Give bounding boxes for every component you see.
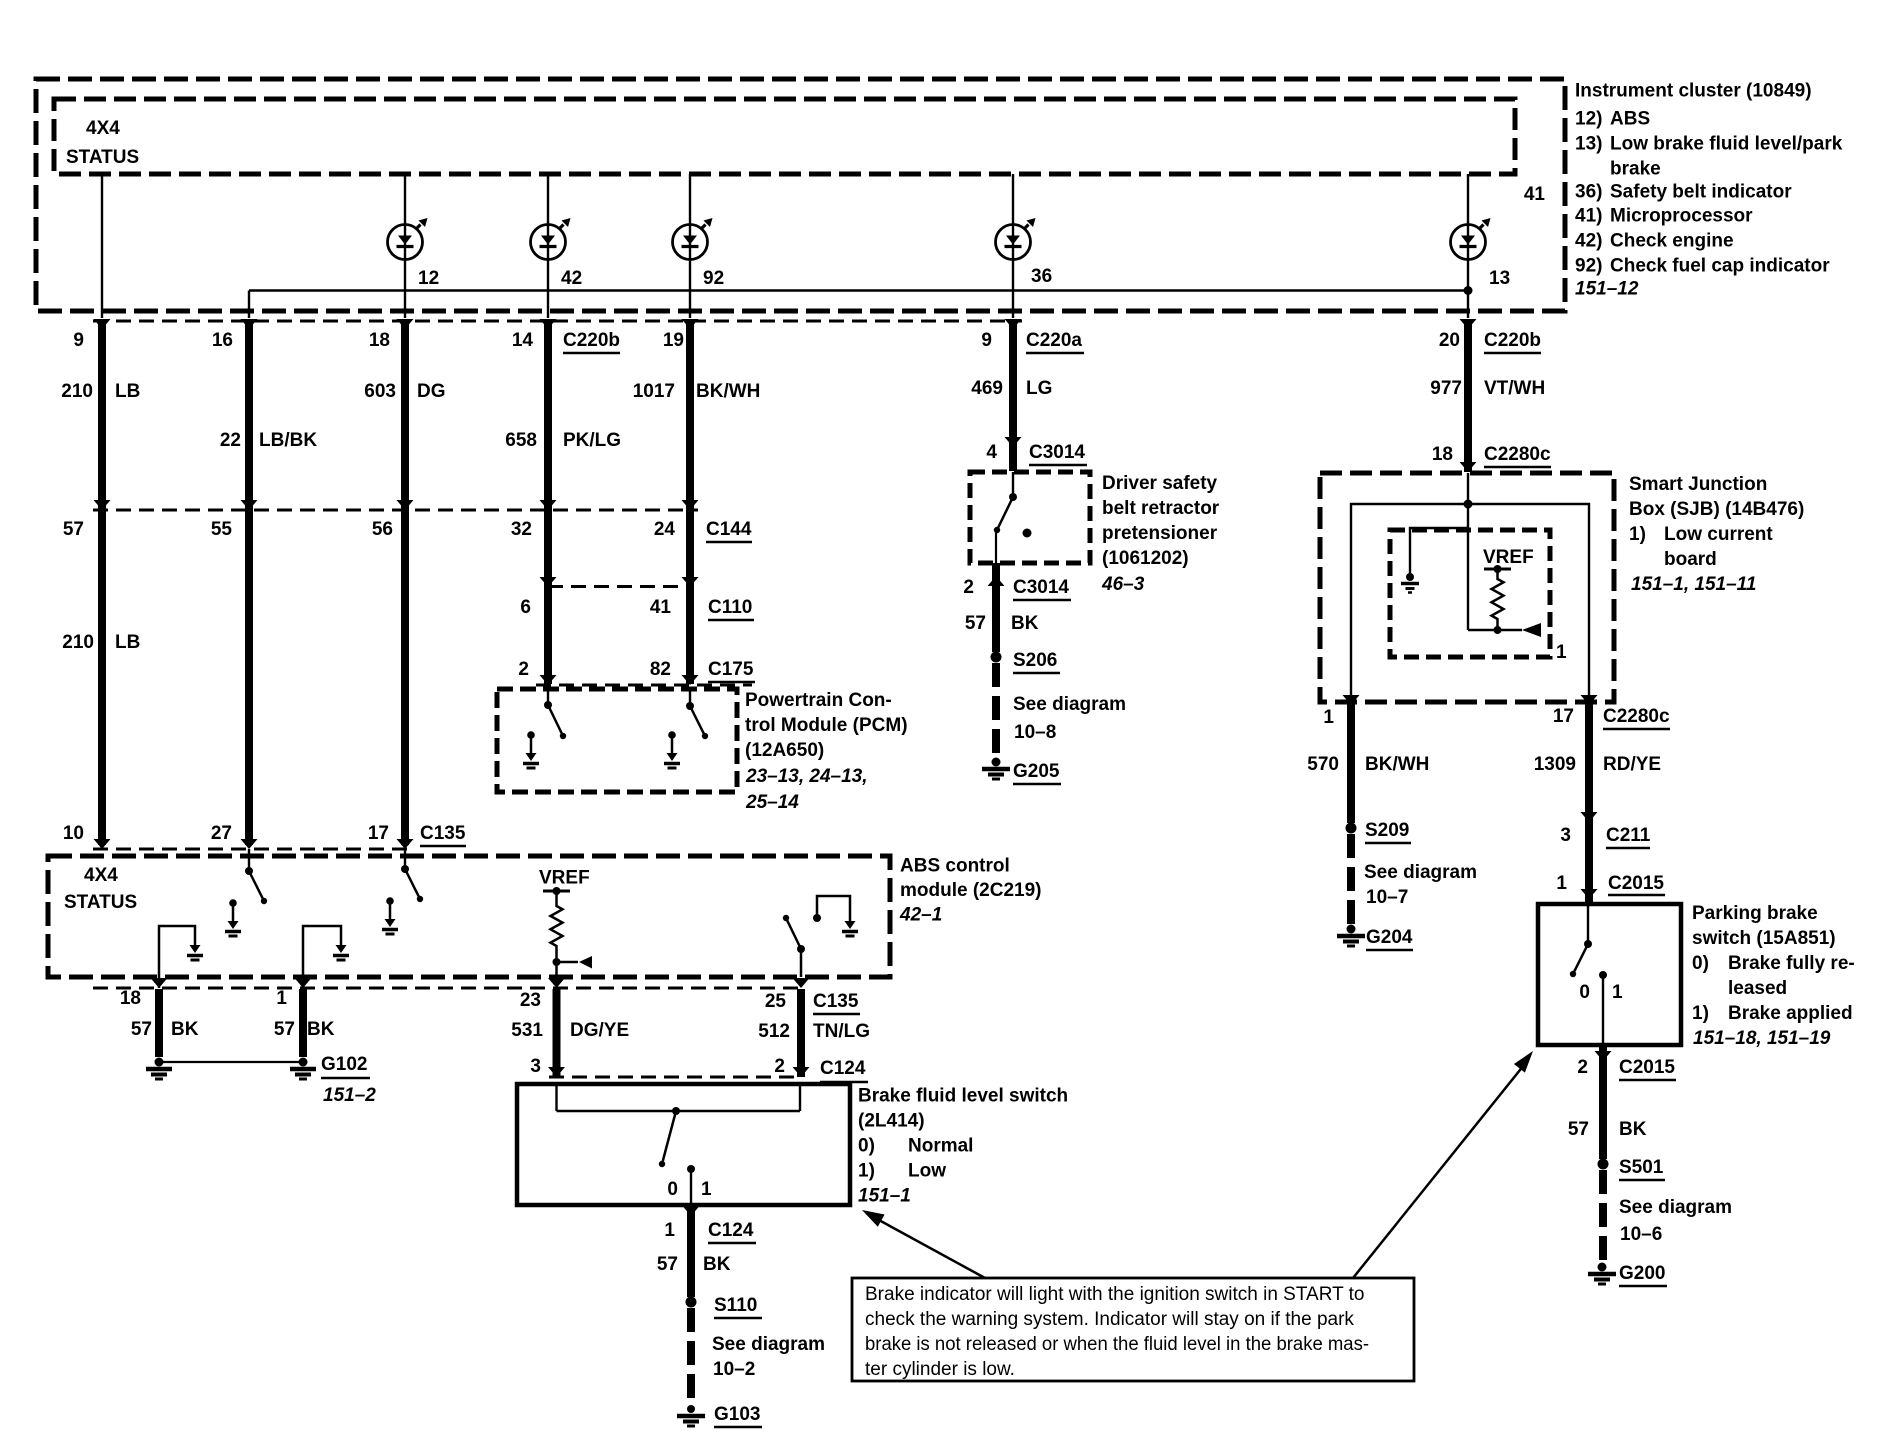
svg-text:brake: brake (1610, 159, 1661, 180)
svg-text:S501: S501 (1619, 1157, 1664, 1178)
smart junction box SJB dashed box (1320, 473, 1614, 702)
svg-text:C144: C144 (706, 519, 752, 540)
wire dashed to G103 (687, 1308, 695, 1404)
svg-text:23: 23 (520, 990, 541, 1011)
svg-text:BK: BK (1011, 613, 1039, 634)
svg-text:25–14: 25–14 (745, 792, 799, 813)
svg-text:RD/YE: RD/YE (1603, 754, 1661, 775)
ABS jumper pin 1 (303, 926, 341, 988)
wire 57 BK to S501 (1599, 1047, 1607, 1159)
svg-text:0): 0) (858, 1136, 875, 1157)
wire lamp92 inside cluster (689, 174, 691, 318)
wire 977 VT/WH circuit (1464, 322, 1472, 472)
connector 1 C2015 (1581, 889, 1598, 899)
ABS VREF resistor (543, 890, 570, 893)
svg-text:See diagram: See diagram (712, 1334, 825, 1355)
connector 2 C3014 (992, 563, 1000, 652)
svg-text:Parking brake: Parking brake (1692, 903, 1818, 924)
svg-text:TN/LG: TN/LG (813, 1021, 870, 1042)
connector arrows row C175 (540, 675, 557, 685)
svg-text:Brake indicator will light wit: Brake indicator will light with the igni… (865, 1284, 1365, 1305)
svg-text:57: 57 (63, 519, 84, 540)
SJB internal ground (1406, 573, 1414, 581)
svg-text:92: 92 (703, 268, 724, 289)
svg-text:42–1: 42–1 (899, 905, 942, 926)
connector arrows row C124 (548, 1067, 565, 1077)
svg-text:1): 1) (858, 1161, 875, 1182)
ABS switch pin 17 (404, 849, 406, 867)
svg-text:4X4: 4X4 (86, 118, 120, 139)
pretensioner switch (1012, 472, 1014, 495)
ground G200 (1598, 1263, 1607, 1272)
svg-text:1: 1 (276, 988, 287, 1009)
svg-text:pretensioner: pretensioner (1102, 523, 1218, 544)
svg-text:10: 10 (63, 823, 84, 844)
svg-text:4X4: 4X4 (84, 865, 118, 886)
svg-text:56: 56 (372, 519, 393, 540)
PCM switch pin 82 (689, 689, 691, 706)
svg-text:57: 57 (965, 613, 986, 634)
svg-text:32: 32 (511, 519, 532, 540)
svg-text:Brake fluid level switch: Brake fluid level switch (858, 1086, 1068, 1107)
connector C110 dashed line (548, 585, 688, 588)
svg-text:G204: G204 (1366, 927, 1413, 948)
instrument cluster (10849) outer dashed box (36, 79, 1565, 311)
connector arrows row C135 bottom (151, 978, 168, 988)
svg-text:STATUS: STATUS (66, 147, 139, 168)
connector arrows row C110 (540, 577, 557, 587)
wire 57 BK pin 1 (299, 989, 307, 1057)
splice S110 (686, 1297, 697, 1308)
ground link wire (159, 1061, 303, 1063)
parking brake switch box (1538, 904, 1681, 1045)
wire lamp12 inside cluster (404, 174, 406, 318)
svg-text:9: 9 (73, 330, 84, 351)
pretensioner contact dot (1023, 529, 1032, 538)
svg-text:(2L414): (2L414) (858, 1111, 925, 1132)
svg-text:151–2: 151–2 (323, 1085, 376, 1106)
svg-text:Box (SJB) (14B476): Box (SJB) (14B476) (1629, 499, 1804, 520)
svg-text:151–1, 151–11: 151–1, 151–11 (1631, 574, 1756, 595)
svg-text:check the warning system. Indi: check the warning system. Indicator will… (865, 1309, 1354, 1330)
connector C175 dashed line (536, 684, 752, 687)
svg-text:20: 20 (1439, 330, 1460, 351)
parking brake switch contact (1599, 971, 1607, 979)
wire 469 LG circuit (1009, 322, 1017, 471)
ABS control module dashed box (48, 856, 890, 977)
ABS ground arrow for pin 27 (229, 899, 237, 907)
connector C124 dashed line (549, 1076, 802, 1079)
svg-text:1309: 1309 (1534, 754, 1576, 775)
svg-text:2: 2 (518, 659, 529, 680)
svg-text:Low: Low (908, 1161, 946, 1182)
svg-text:PK/LG: PK/LG (563, 430, 621, 451)
svg-text:leased: leased (1728, 978, 1787, 999)
svg-text:82: 82 (650, 659, 671, 680)
svg-text:151–12: 151–12 (1575, 279, 1639, 300)
SJB internal wiring (1467, 473, 1469, 630)
ABS jumper pin 25 (817, 896, 850, 921)
svg-text:210: 210 (61, 381, 93, 402)
svg-text:C220b: C220b (563, 330, 620, 351)
svg-text:Low brake fluid level/park: Low brake fluid level/park (1610, 134, 1843, 155)
svg-text:C135: C135 (420, 823, 466, 844)
svg-text:3: 3 (1560, 825, 1571, 846)
indicator lamp 42 check engine (531, 225, 566, 260)
brake fluid switch wiring (555, 1084, 557, 1111)
SJB VREF resistor (1484, 568, 1511, 571)
ground G205 (992, 758, 1001, 767)
svg-text:C2280c: C2280c (1484, 444, 1551, 465)
splice S501 (1598, 1159, 1609, 1170)
ground G102 left (155, 1058, 164, 1067)
svg-text:See diagram: See diagram (1013, 694, 1126, 715)
svg-text:BK: BK (703, 1254, 731, 1275)
svg-text:BK/WH: BK/WH (1365, 754, 1429, 775)
note box (852, 1278, 1414, 1381)
wire 1017 BK/WH circuit (686, 322, 694, 684)
svg-text:0: 0 (1579, 982, 1590, 1003)
svg-text:C124: C124 (820, 1058, 866, 1079)
connector arrows row C135 top (94, 839, 111, 849)
svg-text:6: 6 (520, 597, 531, 618)
svg-text:23–13, 24–13,: 23–13, 24–13, (745, 766, 868, 787)
svg-text:C135: C135 (813, 991, 859, 1012)
wire 1309 RD/YE (1585, 703, 1593, 903)
svg-text:10–7: 10–7 (1366, 887, 1408, 908)
svg-text:2: 2 (774, 1056, 785, 1077)
connector C135 dashed line bottom (93, 987, 806, 990)
svg-text:2: 2 (1577, 1057, 1588, 1078)
SJB resistor bottom junction (1468, 629, 1522, 632)
connector 1 SJB arrow (1343, 695, 1360, 705)
brake fluid level switch box (517, 1084, 850, 1205)
svg-text:S110: S110 (714, 1295, 757, 1316)
svg-text:VT/WH: VT/WH (1484, 378, 1545, 399)
wire 22 LB/BK circuit (245, 322, 253, 845)
svg-text:57: 57 (131, 1019, 152, 1040)
wire lamp36 inside cluster (1012, 174, 1014, 318)
svg-text:4: 4 (986, 442, 997, 463)
connector 2 C2015 (1595, 1051, 1612, 1061)
microprocessor 41 inner dashed box (54, 99, 1515, 174)
ABS VREF junction dot (553, 958, 561, 966)
svg-text:36: 36 (1031, 266, 1052, 287)
svg-text:Check engine: Check engine (1610, 231, 1734, 252)
svg-text:ter cylinder is low.: ter cylinder is low. (865, 1359, 1015, 1380)
svg-text:1: 1 (1612, 982, 1623, 1003)
splice S206 (991, 652, 1002, 663)
svg-text:16: 16 (212, 330, 233, 351)
svg-text:25: 25 (765, 991, 787, 1012)
svg-text:14: 14 (512, 330, 534, 351)
svg-text:C175: C175 (708, 659, 754, 680)
svg-text:Brake fully re-: Brake fully re- (1728, 953, 1855, 974)
svg-text:92): 92) (1575, 256, 1602, 277)
svg-text:1: 1 (1556, 642, 1567, 663)
svg-text:57: 57 (1568, 1119, 1589, 1140)
svg-text:0): 0) (1692, 953, 1709, 974)
svg-text:ABS control: ABS control (900, 856, 1010, 877)
svg-text:C220b: C220b (1484, 330, 1541, 351)
svg-text:LB/BK: LB/BK (259, 430, 317, 451)
svg-text:531: 531 (511, 1020, 543, 1041)
svg-text:G200: G200 (1619, 1263, 1665, 1284)
svg-text:1): 1) (1629, 524, 1646, 545)
svg-text:BK: BK (171, 1019, 199, 1040)
indicator lamp 13 brake warning (1451, 225, 1486, 260)
svg-text:19: 19 (663, 330, 684, 351)
ground G103 (687, 1405, 695, 1413)
ABS switch pin 25 (800, 949, 803, 977)
svg-text:55: 55 (211, 519, 233, 540)
splice S209 (1346, 823, 1357, 834)
svg-text:17: 17 (1553, 706, 1574, 727)
svg-text:18: 18 (120, 988, 141, 1009)
svg-text:G103: G103 (714, 1404, 760, 1425)
svg-text:ABS: ABS (1610, 109, 1650, 130)
wire pin9 inside cluster (101, 174, 103, 318)
indicator lamp 92 check fuel cap (673, 225, 708, 260)
svg-text:0: 0 (667, 1179, 678, 1200)
svg-text:18: 18 (369, 330, 390, 351)
svg-text:10–2: 10–2 (713, 1359, 755, 1380)
svg-text:36): 36) (1575, 182, 1602, 203)
connector C135 dashed line top (93, 848, 414, 851)
svg-text:151–1: 151–1 (858, 1186, 911, 1207)
svg-text:LB: LB (115, 381, 140, 402)
wire 512 TN/LG (797, 989, 805, 1077)
svg-text:G205: G205 (1013, 761, 1060, 782)
svg-text:27: 27 (211, 823, 232, 844)
PCM ground arrow right (668, 731, 676, 739)
svg-text:C3014: C3014 (1013, 577, 1069, 598)
svg-text:41: 41 (1524, 184, 1546, 205)
svg-text:C2015: C2015 (1608, 873, 1664, 894)
wire dashed to G204 (1347, 834, 1355, 924)
svg-text:210: 210 (62, 632, 94, 653)
indicator lamp 36 safety belt (996, 225, 1031, 260)
svg-text:469: 469 (971, 378, 1003, 399)
svg-text:C110: C110 (708, 597, 752, 618)
svg-text:module (2C219): module (2C219) (900, 880, 1041, 901)
svg-text:Instrument cluster (10849): Instrument cluster (10849) (1575, 81, 1812, 102)
svg-text:1): 1) (1692, 1003, 1709, 1024)
svg-text:13): 13) (1575, 134, 1602, 155)
svg-text:belt retractor: belt retractor (1102, 498, 1220, 519)
svg-text:Brake applied: Brake applied (1728, 1003, 1853, 1024)
svg-text:Powertrain Con-: Powertrain Con- (745, 690, 892, 711)
svg-text:17: 17 (368, 823, 389, 844)
wire 531 DG/YE (553, 989, 561, 1077)
svg-text:658: 658 (505, 430, 537, 451)
svg-text:57: 57 (657, 1254, 678, 1275)
svg-text:12: 12 (418, 268, 439, 289)
svg-text:VREF: VREF (539, 868, 590, 889)
SJB wiper arrow (1522, 623, 1541, 637)
svg-text:LB: LB (115, 632, 140, 653)
svg-text:brake is not released or when: brake is not released or when the fluid … (865, 1334, 1369, 1355)
svg-text:151–18, 151–19: 151–18, 151–19 (1693, 1028, 1831, 1049)
svg-text:977: 977 (1430, 378, 1462, 399)
svg-text:Microprocessor: Microprocessor (1610, 206, 1753, 227)
driver safety belt retractor pretensioner dashed box (970, 472, 1090, 563)
svg-text:512: 512 (758, 1021, 790, 1042)
svg-text:G102: G102 (321, 1054, 367, 1075)
PCM switch pin 2 (547, 689, 549, 705)
svg-text:57: 57 (274, 1019, 295, 1040)
svg-text:1: 1 (1323, 707, 1334, 728)
ground G102 right (299, 1058, 308, 1067)
svg-text:C220a: C220a (1026, 330, 1082, 351)
brake fluid switch lever (672, 1107, 680, 1115)
svg-text:Safety belt indicator: Safety belt indicator (1610, 182, 1792, 203)
svg-text:12): 12) (1575, 109, 1602, 130)
svg-text:1017: 1017 (633, 381, 675, 402)
svg-text:603: 603 (364, 381, 396, 402)
wire 603 DG circuit (401, 322, 409, 845)
svg-text:42): 42) (1575, 231, 1602, 252)
connector 17 C2280c (1581, 695, 1598, 705)
svg-text:18: 18 (1432, 444, 1453, 465)
PCM ground arrow left (527, 731, 535, 739)
wire 57 BK pin 18 (155, 989, 163, 1057)
connector arrows row C220 (94, 319, 111, 329)
svg-text:3: 3 (530, 1056, 541, 1077)
wire dashed to G205 (992, 663, 1000, 755)
svg-text:C2015: C2015 (1619, 1057, 1675, 1078)
svg-text:switch (15A851): switch (15A851) (1692, 928, 1836, 949)
svg-text:1: 1 (701, 1179, 712, 1200)
svg-text:(1061202): (1061202) (1102, 548, 1189, 569)
svg-text:trol Module (PCM): trol Module (PCM) (745, 715, 908, 736)
svg-text:41): 41) (1575, 206, 1602, 227)
svg-text:C124: C124 (708, 1220, 754, 1241)
ABS VREF wiper arrow (557, 961, 579, 964)
note arrow to brake fluid switch (866, 1213, 985, 1278)
svg-text:C211: C211 (1606, 825, 1651, 846)
svg-text:BK/WH: BK/WH (696, 381, 760, 402)
svg-text:S206: S206 (1013, 650, 1057, 671)
svg-text:Check fuel cap indicator: Check fuel cap indicator (1610, 256, 1830, 277)
indicator lamp 12 ABS (388, 225, 423, 260)
svg-text:DG: DG (417, 381, 446, 402)
svg-text:42: 42 (561, 268, 582, 289)
parking brake switch wiring (1587, 904, 1589, 941)
connector C144 dashed line (93, 509, 698, 512)
connector 1 C124 arrow (683, 1206, 700, 1216)
svg-text:1: 1 (664, 1220, 675, 1241)
ABS switch pin 27 (248, 849, 250, 869)
wire 210 LB circuit (98, 322, 106, 845)
svg-text:570: 570 (1307, 754, 1339, 775)
svg-text:board: board (1664, 549, 1717, 570)
svg-text:24: 24 (654, 519, 676, 540)
wire 570 BK/WH (1347, 703, 1355, 823)
svg-text:10–6: 10–6 (1620, 1224, 1662, 1245)
svg-text:13: 13 (1489, 268, 1510, 289)
svg-text:C3014: C3014 (1029, 442, 1085, 463)
svg-text:9: 9 (981, 330, 992, 351)
svg-text:See diagram: See diagram (1619, 1197, 1732, 1218)
svg-text:Low current: Low current (1664, 524, 1773, 545)
svg-text:(12A650): (12A650) (745, 740, 824, 761)
connector 3 C211 (1581, 812, 1598, 822)
svg-text:S209: S209 (1365, 820, 1409, 841)
svg-text:41: 41 (650, 597, 672, 618)
svg-text:46–3: 46–3 (1101, 574, 1145, 595)
svg-text:1: 1 (1556, 873, 1567, 894)
svg-text:LG: LG (1026, 378, 1052, 399)
svg-text:VREF: VREF (1483, 547, 1534, 568)
connector arrows row C144 (94, 500, 111, 510)
wire dashed to G200 (1599, 1170, 1607, 1262)
svg-text:2: 2 (963, 577, 974, 598)
svg-text:22: 22 (220, 430, 241, 451)
wire lamp13 to pin16 horizontal (249, 289, 1468, 291)
svg-text:STATUS: STATUS (64, 892, 137, 913)
connector C220b dashed line (93, 320, 1022, 323)
svg-text:BK: BK (307, 1019, 335, 1040)
svg-text:DG/YE: DG/YE (570, 1020, 629, 1041)
svg-text:Smart Junction: Smart Junction (1629, 474, 1767, 495)
svg-text:Driver safety: Driver safety (1102, 473, 1218, 494)
svg-text:BK: BK (1619, 1119, 1647, 1140)
brake fluid switch contact (687, 1165, 695, 1173)
ABS ground arrow for pin 17 (386, 897, 394, 905)
SJB low current board dashed box (1390, 530, 1550, 657)
ground G204 (1347, 925, 1356, 934)
wire 658 PK/LG circuit (544, 322, 552, 684)
wire lamp42 inside cluster (547, 174, 549, 318)
wire lamp13 inside cluster (1467, 174, 1469, 318)
wire 57 BK to S110 (687, 1206, 695, 1297)
svg-text:C2280c: C2280c (1603, 706, 1670, 727)
powertrain control module PCM dashed box (497, 689, 737, 792)
svg-text:10–8: 10–8 (1014, 722, 1056, 743)
junction dot lamp13 wire (1464, 286, 1473, 295)
svg-text:Normal: Normal (908, 1136, 973, 1157)
svg-text:See diagram: See diagram (1364, 862, 1477, 883)
note arrow to parking brake switch (1353, 1060, 1528, 1278)
ABS jumper pin 18 (159, 926, 195, 988)
